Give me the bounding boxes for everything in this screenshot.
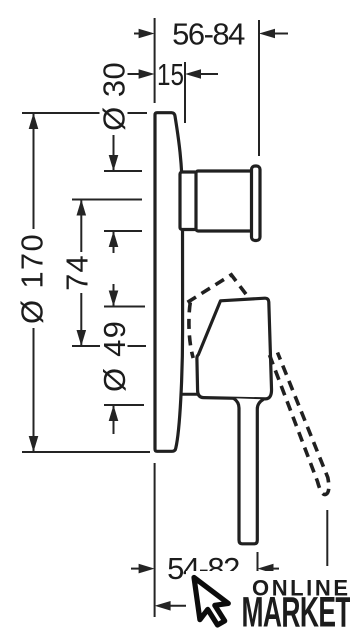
svg-text:Ø 49: Ø 49: [97, 320, 132, 392]
svg-text:74: 74: [60, 254, 95, 290]
svg-text:Ø 170: Ø 170: [15, 233, 50, 324]
svg-text:15: 15: [157, 57, 184, 92]
svg-text:MARKET: MARKET: [242, 588, 350, 636]
svg-text:Ø 30: Ø 30: [97, 62, 132, 131]
svg-text:56-84: 56-84: [172, 17, 245, 52]
